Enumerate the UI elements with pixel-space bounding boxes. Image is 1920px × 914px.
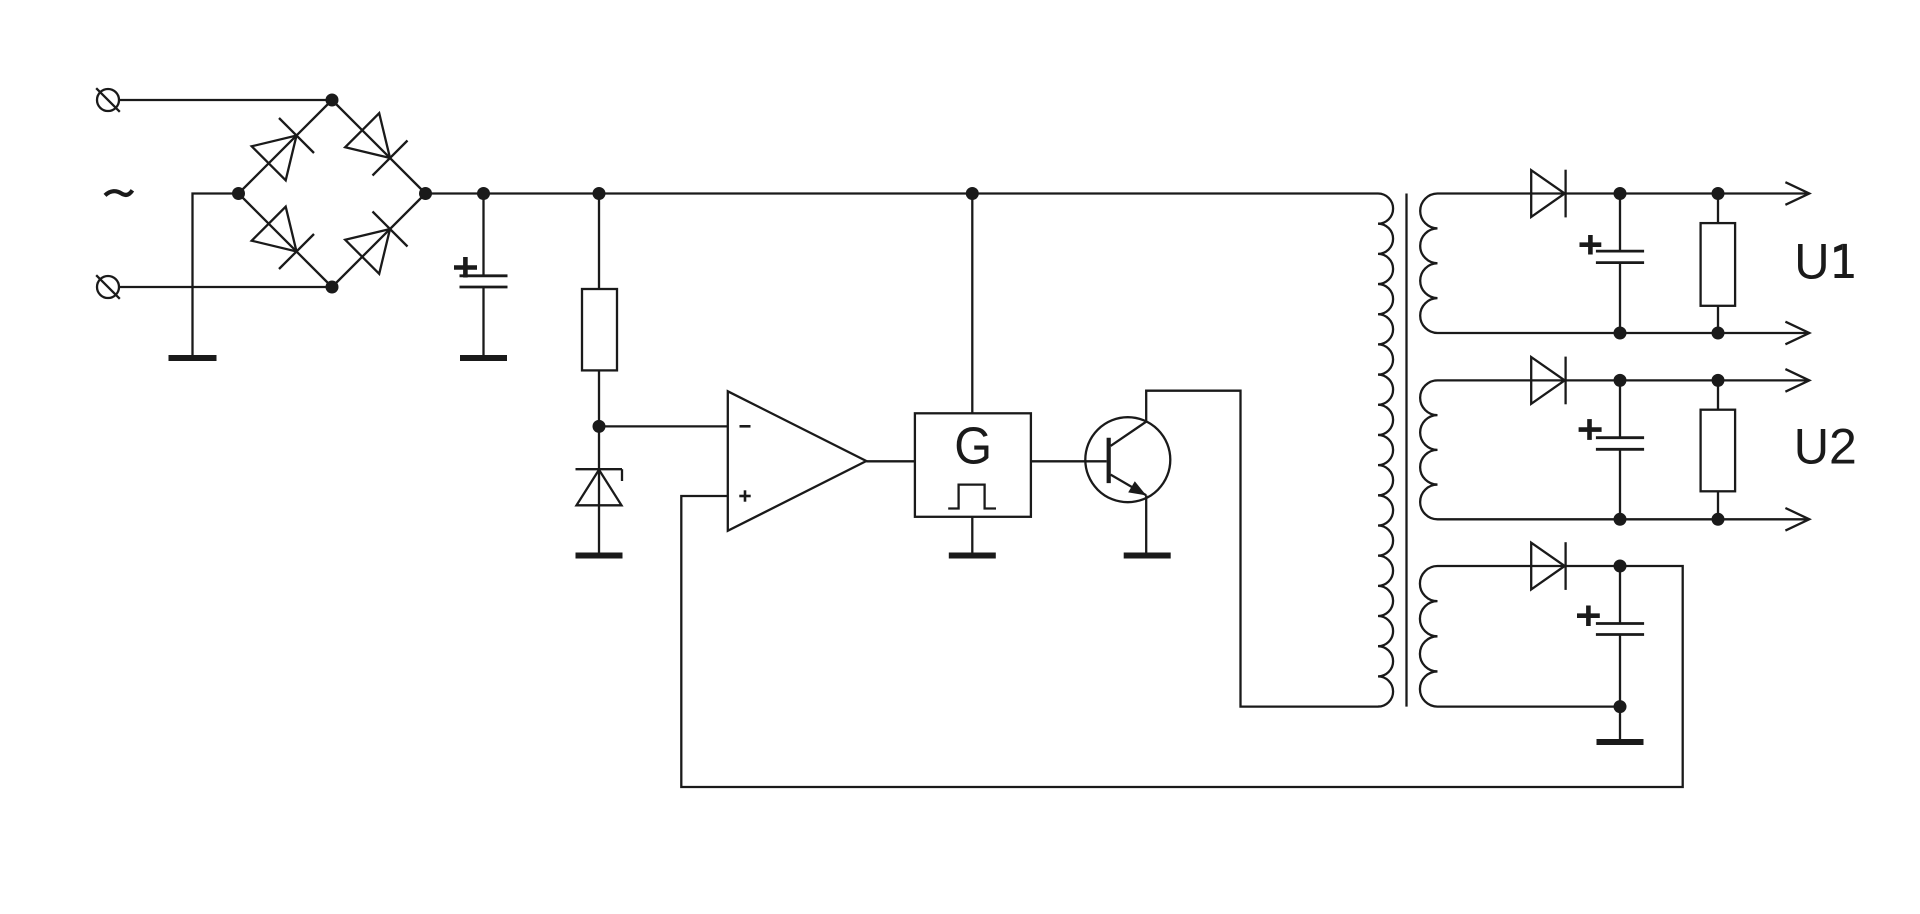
- svg-text:2: 2: [1829, 419, 1857, 475]
- diode D1 (bridge upper-left): [252, 118, 314, 180]
- wire secondary 2 top line: [1438, 379, 1810, 381]
- transformer T1 primary winding: [1378, 194, 1393, 707]
- transformer secondary winding 1: [1420, 194, 1437, 334]
- node U1 res top: [1712, 187, 1725, 200]
- wire X1 to bridge top node: [119, 99, 332, 101]
- wire secondary 3 top line: [1438, 565, 1621, 567]
- AC symbol ~: [105, 190, 132, 195]
- diode D2 (bridge upper-right): [345, 113, 407, 175]
- wire G block to transistor base: [1031, 460, 1107, 462]
- wire emitter to ground: [1145, 495, 1147, 552]
- ground (emitter): [1124, 553, 1171, 559]
- arrow output U1 minus: [1785, 322, 1809, 345]
- wire G block to ground: [971, 517, 973, 553]
- transformer core: [1405, 194, 1407, 707]
- ground (bridge): [169, 355, 217, 361]
- wire secondary 3 bottom line: [1438, 705, 1621, 707]
- plus label C4: [1577, 606, 1600, 627]
- wire secondary 1 top line: [1438, 192, 1810, 194]
- node bridge right: [419, 187, 432, 200]
- node reference (R1/zener junction): [593, 420, 606, 433]
- node R1 tap: [593, 187, 606, 200]
- capacitor C2 (output U1): [1596, 194, 1644, 334]
- ground (G block): [949, 553, 996, 559]
- node bridge bottom: [326, 281, 339, 294]
- wire secondary 2 bottom line: [1438, 518, 1810, 520]
- node bridge top: [326, 94, 339, 107]
- node U2 res bottom: [1712, 513, 1725, 526]
- plus label C3: [1579, 419, 1602, 440]
- node C1 tap: [477, 187, 490, 200]
- node feedback cap bottom: [1614, 700, 1627, 713]
- arrow output U2 plus: [1785, 369, 1809, 392]
- plus label C2: [1580, 235, 1602, 255]
- capacitor C4 (feedback): [1596, 566, 1644, 707]
- wire X2 to bridge bottom node: [119, 286, 332, 288]
- wire bridge side bottom-right: [332, 194, 426, 288]
- capacitor C3 (output U2): [1596, 380, 1644, 519]
- diode D7 (output U2): [1531, 357, 1565, 405]
- pulse waveform symbol: [948, 485, 996, 509]
- node bridge left: [232, 187, 245, 200]
- wire comparator output to G block: [866, 460, 915, 462]
- transformer secondary winding 3: [1420, 566, 1438, 707]
- wire secondary 1 bottom line: [1438, 332, 1810, 334]
- minus label (inverting input): [740, 425, 751, 428]
- op-amp U1 comparator: [728, 391, 867, 531]
- node U1 res bottom: [1712, 327, 1725, 340]
- node feedback cap top: [1614, 560, 1627, 573]
- terminal X1 (AC input top): [96, 88, 120, 112]
- resistor R1: [582, 194, 617, 427]
- plus label (non-inverting input): [739, 490, 750, 501]
- label U1: [1794, 234, 1853, 290]
- wire rail to G block top: [971, 194, 973, 414]
- pulse generator block G: [915, 413, 1031, 517]
- transistor Q1: [1085, 417, 1170, 502]
- terminal X2 (AC input bottom): [96, 275, 120, 299]
- wire feedback loop to comparator non-inverting input: [681, 496, 1682, 787]
- wire collector to transformer primary bottom: [1146, 391, 1378, 707]
- node U2 cap top: [1614, 374, 1627, 387]
- transformer secondary winding 2: [1420, 380, 1437, 519]
- wire reference node to comparator inverting input: [599, 425, 728, 427]
- node U2 cap bottom: [1614, 513, 1627, 526]
- ground (feedback): [1597, 739, 1644, 745]
- zener diode D5: [576, 426, 623, 553]
- diode D4 (bridge lower-right): [345, 212, 407, 274]
- svg-text:U: U: [1794, 234, 1829, 290]
- node U1 cap bottom: [1614, 327, 1627, 340]
- svg-text:G: G: [954, 416, 992, 475]
- wire feedback node to ground: [1619, 707, 1621, 739]
- wire bridge side left-bottom: [239, 194, 333, 288]
- ground (C1): [460, 355, 507, 361]
- plus label C1: [454, 257, 477, 278]
- arrow output U2 minus: [1785, 508, 1809, 531]
- node G tap: [966, 187, 979, 200]
- diode D3 (bridge lower-left): [252, 207, 314, 269]
- resistor R3 (load U2): [1701, 380, 1736, 519]
- node U2 res top: [1712, 374, 1725, 387]
- wire bridge left node to ground: [193, 194, 239, 356]
- capacitor C1 (smoothing, polarized): [460, 194, 508, 356]
- wire bridge side left-top: [239, 100, 333, 194]
- diode D8 (feedback output): [1531, 542, 1565, 590]
- wire main DC rail: [426, 192, 1379, 194]
- arrow output U1 plus: [1785, 182, 1809, 205]
- resistor R2 (load U1): [1701, 194, 1736, 334]
- label U2: [1794, 419, 1857, 475]
- diode D6 (output U1): [1531, 170, 1565, 218]
- ground (zener): [576, 553, 623, 559]
- node U1 cap top: [1614, 187, 1627, 200]
- svg-text:U: U: [1794, 419, 1829, 475]
- wire bridge side top-right: [332, 100, 426, 194]
